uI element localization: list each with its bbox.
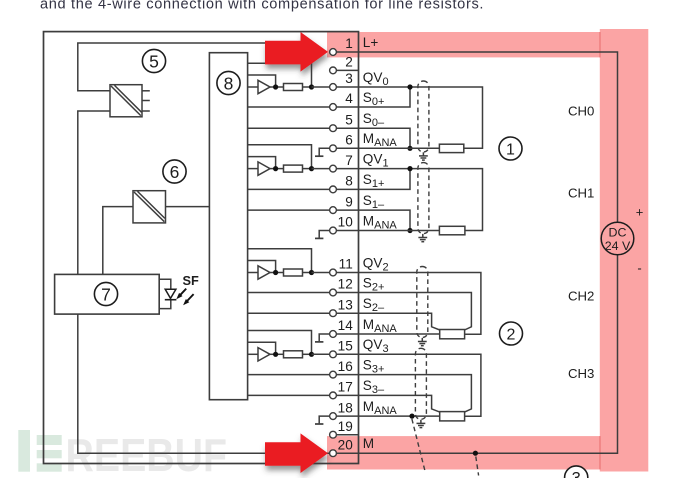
svg-text:8: 8 [345, 174, 353, 189]
svg-text:2: 2 [507, 326, 516, 343]
svg-text:SF: SF [183, 273, 200, 288]
pink band seam bottom [599, 436, 601, 469]
resistor R3 output [270, 269, 312, 276]
wire QV0 to terminal [312, 86, 338, 88]
svg-text:2: 2 [345, 55, 353, 70]
svg-text:5: 5 [149, 52, 159, 72]
ground MANA channel 2 [315, 341, 323, 343]
wire M return [337, 255, 618, 453]
ground shield 1 [418, 234, 427, 242]
LED bracket [159, 279, 171, 308]
svg-text:17: 17 [338, 380, 353, 395]
pink band seam top [599, 32, 601, 57]
ground shield 2 [418, 338, 427, 346]
terminal 7 circle [330, 165, 337, 172]
svg-text:and the 4-wire connection with: and the 4-wire connection with compensat… [40, 0, 484, 13]
wire S0+ from block8 [248, 106, 337, 108]
svg-text:6: 6 [345, 133, 353, 148]
wire S3+ sense [337, 375, 471, 413]
wire S3- from block8 [248, 394, 337, 396]
wire S0- from block8 [248, 127, 337, 129]
svg-text:CH2: CH2 [568, 288, 594, 303]
svg-text:12: 12 [338, 277, 353, 292]
junction QV3 internal [309, 352, 314, 357]
wire S2+ from block8 [248, 292, 337, 294]
svg-text:CH0: CH0 [568, 104, 594, 119]
cable shield channel 2 [417, 267, 428, 338]
svg-text:+: + [636, 205, 644, 220]
junction amp output 2 [273, 270, 278, 275]
cable shield channel 1 [418, 163, 429, 234]
terminal 20 circle [330, 450, 337, 457]
junction QV0 internal [309, 84, 314, 89]
wire QV2 external [337, 273, 481, 335]
junction QV0/S0+ [407, 84, 412, 89]
op-amp U3 channel 2 [248, 266, 270, 279]
terminal 1 circle [330, 49, 337, 56]
junction MANA3 shield [409, 414, 414, 419]
svg-text:5: 5 [345, 112, 353, 127]
svg-text:7: 7 [345, 153, 353, 168]
ground MANA channel 1 [315, 237, 323, 239]
svg-text:14: 14 [338, 318, 354, 333]
terminal 9 circle [330, 207, 337, 214]
wire QV1 external [337, 169, 483, 231]
wire QV3 external [337, 354, 481, 416]
callout 3 [565, 466, 588, 478]
wire MANA hook channel 3 [319, 416, 329, 423]
terminal 19 circle [330, 431, 337, 438]
module outline [44, 32, 359, 464]
junction S1-/MANA [407, 228, 412, 233]
block 7 [55, 274, 160, 314]
svg-text:REEBUF: REEBUF [66, 430, 227, 478]
LED diode SF [165, 289, 177, 300]
junction amp output 3 [273, 352, 278, 357]
wire MANA hook channel 2 [319, 334, 329, 341]
wire S2- from block8 [248, 312, 337, 314]
load resistor channel 0 [439, 144, 463, 152]
wire S3- sense [337, 395, 440, 412]
terminal 3 circle [330, 84, 337, 91]
terminal 11 circle [330, 269, 337, 276]
wire MANA0 external [337, 147, 439, 149]
wire MANA1 external [337, 230, 439, 232]
svg-text:20: 20 [338, 437, 354, 452]
svg-text:CH3: CH3 [568, 366, 594, 381]
junction amp output 1 [273, 166, 278, 171]
wire feedback U1 [248, 75, 276, 87]
junction M shield [473, 451, 478, 456]
wire MANA3 external [337, 415, 440, 417]
pink highlight band bottom [327, 436, 648, 469]
dashed shield drain M [476, 457, 479, 476]
junction amp output 0 [273, 84, 278, 89]
DC 24V source [601, 222, 634, 255]
terminal 16 circle [330, 371, 337, 378]
transformer block 6 [133, 191, 166, 223]
dashed shield drain channel 3 [412, 419, 426, 473]
terminal 8 circle [330, 186, 337, 193]
svg-text:7: 7 [101, 285, 111, 305]
load resistor channel 3 [440, 412, 465, 421]
svg-text:1: 1 [506, 141, 515, 158]
svg-text:L+: L+ [363, 35, 379, 50]
svg-text:3: 3 [345, 71, 353, 86]
wire L+ internal rail [78, 43, 312, 91]
terminal 15 circle [330, 351, 337, 358]
svg-text:DC: DC [609, 226, 627, 240]
junction QV1/S1+ [407, 166, 412, 171]
svg-text:19: 19 [338, 419, 353, 434]
wire M internal rail [78, 314, 329, 453]
terminal 10 circle [330, 227, 337, 234]
wire block6 input [103, 207, 133, 275]
svg-text:CH1: CH1 [568, 186, 594, 201]
svg-text:3: 3 [572, 470, 581, 478]
wire S1+ from block8 [248, 188, 337, 190]
cable shield channel 3 [415, 348, 426, 419]
wire QV1 to terminal [312, 168, 338, 170]
wire sense channel 1 [248, 145, 312, 169]
watermark text REEBUF [66, 430, 227, 478]
terminal 4 circle [330, 104, 337, 111]
junction QV1 internal [309, 166, 314, 171]
svg-text:13: 13 [338, 297, 353, 312]
callout 2 [500, 322, 523, 345]
wire QV3 to terminal [312, 353, 338, 355]
wire S2+ sense [337, 293, 471, 331]
wire S0+ external jumper [337, 87, 410, 107]
transformer block 5 [110, 85, 150, 117]
svg-text:-: - [637, 261, 641, 276]
svg-text:16: 16 [338, 359, 353, 374]
watermark logo bar [18, 430, 30, 472]
terminal 17 circle [330, 392, 337, 399]
ground MANA channel 3 [315, 423, 323, 425]
svg-text:8: 8 [224, 74, 234, 94]
resistor R4 output [270, 351, 312, 358]
svg-text:1: 1 [345, 36, 353, 51]
terminal 12 circle [330, 289, 337, 296]
arrow marker terminal 20 [265, 433, 328, 473]
svg-text:9: 9 [345, 194, 353, 209]
load resistor channel 1 [439, 226, 465, 235]
wire terminal 2 stub [337, 69, 359, 71]
wire S0- external jumper [337, 128, 410, 148]
circled 7 [94, 282, 117, 305]
ground shield 0 [419, 152, 428, 160]
pink highlight band right [600, 29, 649, 472]
svg-text:11: 11 [339, 257, 353, 272]
wire QV0 external [337, 87, 483, 148]
terminal 5 circle [330, 125, 337, 132]
wire S1- from block8 [248, 209, 337, 211]
ground shield 3 [417, 420, 426, 428]
wire S3+ from block8 [248, 374, 337, 376]
junction QV2 internal [309, 270, 314, 275]
watermark logo E-bars [37, 435, 62, 472]
circled 6 [163, 160, 186, 183]
wire sense channel 0 [248, 63, 312, 87]
wire feedback U4 [248, 342, 276, 354]
wire MANA2 external [337, 333, 440, 335]
wire terminal 19 stub [337, 434, 359, 436]
resistor R2 output [270, 165, 312, 172]
op-amp U4 channel 3 [248, 348, 270, 361]
svg-text:18: 18 [338, 400, 353, 415]
op-amp U2 channel 1 [248, 162, 270, 175]
callout 1 [499, 137, 522, 160]
LED arrows [176, 289, 193, 306]
wire block5 to block7 [78, 111, 110, 274]
terminal 2 circle [330, 67, 337, 74]
wire sense channel 3 [248, 331, 312, 355]
circled 8 [217, 71, 240, 94]
wire S1+ external jumper [337, 169, 410, 190]
arrow marker terminal 1 [265, 32, 328, 72]
svg-text:15: 15 [338, 339, 353, 354]
junction S0-/MANA [407, 146, 412, 151]
wire S1- external jumper [337, 210, 410, 230]
terminal 14 circle [330, 331, 337, 338]
wire block6 to block8 [166, 206, 210, 208]
svg-text:M: M [363, 436, 374, 451]
wire QV2 to terminal [312, 272, 338, 274]
wire feedback U3 [248, 261, 276, 273]
terminal 18 circle [330, 413, 337, 420]
circled 5 [142, 49, 165, 72]
resistor R1 output [270, 84, 312, 91]
wire MANA hook channel 0 [319, 148, 329, 155]
svg-text:10: 10 [338, 215, 354, 230]
ground MANA channel 0 [315, 155, 323, 157]
load resistor channel 2 [440, 330, 465, 339]
wire feedback U2 [248, 157, 276, 169]
svg-text:6: 6 [170, 162, 180, 182]
cable shield channel 0 [418, 81, 429, 152]
svg-text:24 V: 24 V [605, 239, 631, 253]
op-amp U1 channel 0 [248, 80, 270, 93]
block 8 [209, 53, 247, 400]
wire L+ supply [337, 52, 618, 222]
terminal 6 circle [330, 145, 337, 152]
wire sense channel 2 [248, 249, 312, 273]
wire S2- sense [337, 313, 440, 330]
terminal 13 circle [330, 310, 337, 317]
svg-text:4: 4 [345, 91, 353, 106]
wire MANA hook channel 1 [319, 231, 329, 238]
pink highlight band top [327, 32, 648, 57]
